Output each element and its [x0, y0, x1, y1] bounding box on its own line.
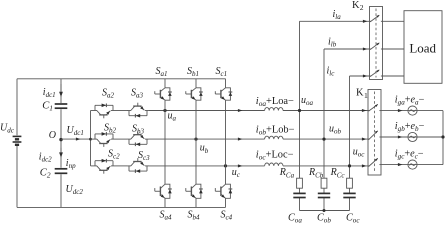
- current arrow ioc: [238, 164, 243, 167]
- wire phase c to K1: [283, 165, 368, 167]
- current arrow idc2: [60, 148, 62, 157]
- wire grid b: [381, 136, 443, 138]
- wire clamp row c: [91, 165, 94, 167]
- wire phase a line: [149, 110, 265, 112]
- wire O to clamp bus: [61, 138, 91, 140]
- resistor RCb: [321, 178, 327, 188]
- capacitor Coa: [293, 193, 305, 197]
- resistor RCa: [297, 178, 303, 188]
- transistor Sa2: [93, 104, 115, 119]
- switch block K2: [370, 7, 383, 80]
- wire leg c to node: [225, 103, 227, 166]
- transistor Sc2: [93, 159, 115, 174]
- wire ilb line: [324, 48, 370, 50]
- node uc: [224, 164, 227, 167]
- wire top dc rail: [17, 78, 226, 80]
- wire ilc line: [350, 75, 370, 77]
- wire dc link middle: [60, 109, 62, 168]
- current arrow into K1 phase a: [362, 109, 367, 112]
- wire leg c to bottom rail: [225, 202, 227, 208]
- wire clamp row b: [91, 138, 94, 140]
- battery Udc: [13, 136, 22, 144]
- wire filter cap rail: [300, 210, 350, 212]
- transistor Sc1: [215, 85, 232, 103]
- switch K1 pole c: [368, 158, 381, 166]
- wire leg a lower: [164, 111, 166, 182]
- wire row c mid: [115, 165, 127, 167]
- wire leg c upper: [225, 79, 227, 85]
- wire phase a vertical: [299, 21, 301, 210]
- wire leg a upper: [164, 79, 166, 85]
- junction grid rail: [441, 135, 444, 138]
- wire phase b line: [149, 138, 265, 140]
- node ua: [163, 109, 166, 112]
- transistor Sa3: [127, 103, 149, 118]
- wire phase c vertical: [349, 76, 351, 211]
- wire row b mid: [115, 138, 127, 140]
- source ea: [408, 106, 417, 115]
- capacitor C1: [55, 104, 68, 108]
- junction phase b: [322, 138, 325, 141]
- switch block K1: [368, 90, 381, 176]
- K2 linkage dashed: [375, 9, 377, 78]
- wire leg b to node: [195, 103, 197, 139]
- svg-text:K: K: [352, 0, 360, 11]
- wire phase c line: [149, 165, 265, 167]
- current arrow ilb: [363, 47, 368, 50]
- capacitor Cob: [318, 193, 330, 197]
- switch K1 pole b: [368, 131, 381, 140]
- wire clamp row a: [91, 110, 94, 112]
- voltage arrow Udc1: [76, 138, 81, 141]
- current arrow iob: [238, 138, 243, 141]
- current arrow igc: [398, 163, 403, 166]
- current arrow igb: [398, 135, 403, 138]
- current arrow iga: [398, 109, 403, 112]
- wire grid c: [381, 164, 443, 166]
- switch K2 pole a: [370, 15, 383, 22]
- transistor Sc4: [215, 181, 232, 202]
- wire clamp bus: [90, 111, 92, 166]
- inductor Lob: [265, 136, 283, 139]
- current arrow ilc: [363, 74, 368, 77]
- wire left rail lower: [16, 146, 18, 208]
- svg-text:1: 1: [364, 91, 368, 100]
- junction phase a: [298, 109, 301, 112]
- node ub: [194, 138, 197, 141]
- current arrow into K1 phase c: [362, 164, 367, 167]
- switch K2 pole c: [370, 70, 383, 77]
- wire leg b upper: [195, 79, 197, 85]
- wire dc link lower: [60, 174, 62, 207]
- svg-text:O: O: [49, 130, 56, 141]
- resistor RCc: [347, 178, 353, 188]
- source eb: [408, 132, 417, 141]
- switch K1 pole a: [368, 104, 381, 111]
- transistor Sc3: [127, 158, 149, 173]
- wire leg c lower: [225, 166, 227, 181]
- inductor Loa: [265, 108, 283, 111]
- svg-text:Load: Load: [409, 41, 436, 56]
- transistor Sa1: [155, 85, 172, 103]
- capacitor Coc: [343, 193, 355, 197]
- source ec: [408, 160, 417, 169]
- K1 linkage dashed: [374, 92, 376, 174]
- wire phase a to K1: [283, 110, 368, 112]
- wire bottom dc rail: [17, 206, 226, 208]
- transistor Sb1: [186, 85, 203, 103]
- svg-text:K: K: [356, 88, 364, 99]
- wire ila line: [300, 20, 370, 22]
- transistor Sb3: [127, 131, 149, 146]
- current arrow ioa: [238, 109, 243, 112]
- wire leg a to node: [164, 103, 166, 111]
- switch K2 pole b: [370, 43, 383, 50]
- wire leg a to bottom rail: [164, 202, 166, 208]
- svg-text:2: 2: [360, 3, 364, 12]
- wire grid a: [381, 110, 443, 112]
- inductor Loc: [265, 163, 283, 166]
- current arrow into K1 phase b: [362, 138, 367, 141]
- wire dc link upper: [60, 79, 62, 103]
- wire K2 to load c: [383, 75, 405, 77]
- node O: [59, 138, 62, 141]
- load box: [404, 11, 442, 84]
- transistor Sb4: [186, 181, 203, 202]
- wire phase b vertical: [323, 49, 325, 211]
- transistor Sa4: [155, 181, 172, 202]
- transistor Sb2: [93, 132, 115, 147]
- wire grid neutral rail: [442, 111, 444, 165]
- wire left rail upper: [16, 79, 18, 136]
- wire row a mid: [115, 110, 127, 112]
- junction cap rail: [323, 209, 326, 212]
- wire K2 to load a: [383, 20, 405, 22]
- junction bus-O: [89, 138, 92, 141]
- current arrow ila: [363, 20, 368, 23]
- wire leg b lower: [195, 139, 197, 181]
- current arrow idc1: [60, 84, 62, 93]
- wire K2 to load b: [383, 48, 405, 50]
- junction phase c: [348, 164, 351, 167]
- wire leg b to bottom rail: [195, 202, 197, 208]
- wire phase b to K1: [283, 138, 368, 140]
- capacitor C2: [55, 169, 68, 174]
